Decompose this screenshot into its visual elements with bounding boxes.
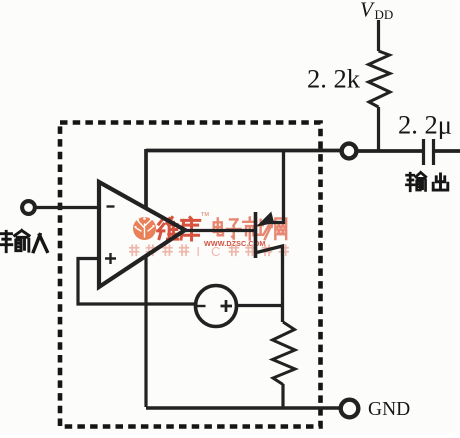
battery/offset source B1	[196, 286, 237, 327]
label 输入 (input)	[1, 230, 48, 251]
wire: capacitor C1 to output edge	[435, 149, 460, 153]
dashed IC internal-circuit boundary box	[60, 123, 321, 427]
transistor Q1 base bar	[254, 212, 258, 258]
wire: Q1 collector down through B1 node to resistor R2	[257, 246, 283, 322]
svg-text:V: V	[360, 0, 375, 22]
svg-text:2. 2μ: 2. 2μ	[398, 110, 452, 140]
svg-text:C: C	[211, 244, 220, 259]
resistor R1 2.2k	[369, 51, 391, 107]
capacitor C1	[424, 139, 434, 165]
wire: op-amp output to transistor Q1 base	[184, 229, 254, 232]
label 输出 (output)	[406, 172, 447, 190]
svg-text:DD: DD	[375, 7, 394, 22]
wire: Q1 emitter up to feedback/output rail	[268, 152, 284, 223]
wire: battery B1 plus terminal to collector riser node	[237, 304, 282, 307]
resistor R2	[273, 322, 296, 385]
wire: top rail from feedback drop to output terminal	[146, 149, 341, 153]
op-amp U1 inverting input (-) marking	[107, 205, 115, 207]
svg-text:GND: GND	[368, 399, 410, 420]
transistor Q1 emitter arrow	[258, 213, 274, 227]
svg-text:I: I	[196, 244, 200, 259]
output terminal node	[342, 144, 357, 159]
ground terminal	[341, 400, 359, 418]
battery B1 minus marking	[197, 305, 206, 307]
wire: op-amp lower edge down to ground rail	[144, 256, 147, 407]
wire: non-inverting input to battery B1 minus terminal	[78, 259, 195, 305]
svg-text:TM: TM	[201, 212, 209, 218]
op-amp U1	[99, 182, 185, 287]
battery B1 plus marking	[221, 300, 233, 312]
wire: input terminal to op-amp inverting input	[37, 206, 98, 209]
wire: VDD to resistor R1	[377, 20, 380, 51]
wire: resistor R2 bottom lead	[281, 384, 284, 408]
svg-text:2. 2k: 2. 2k	[307, 64, 361, 94]
wire: top rail drop to op-amp top edge	[144, 149, 148, 207]
input terminal	[22, 201, 35, 214]
wire: output node to capacitor C1	[357, 149, 422, 153]
wire: resistor R1 bottom to output node	[377, 107, 380, 151]
wire: ground rail to GND terminal	[146, 406, 340, 409]
op-amp U1 non-inverting input (+) marking	[105, 253, 116, 264]
